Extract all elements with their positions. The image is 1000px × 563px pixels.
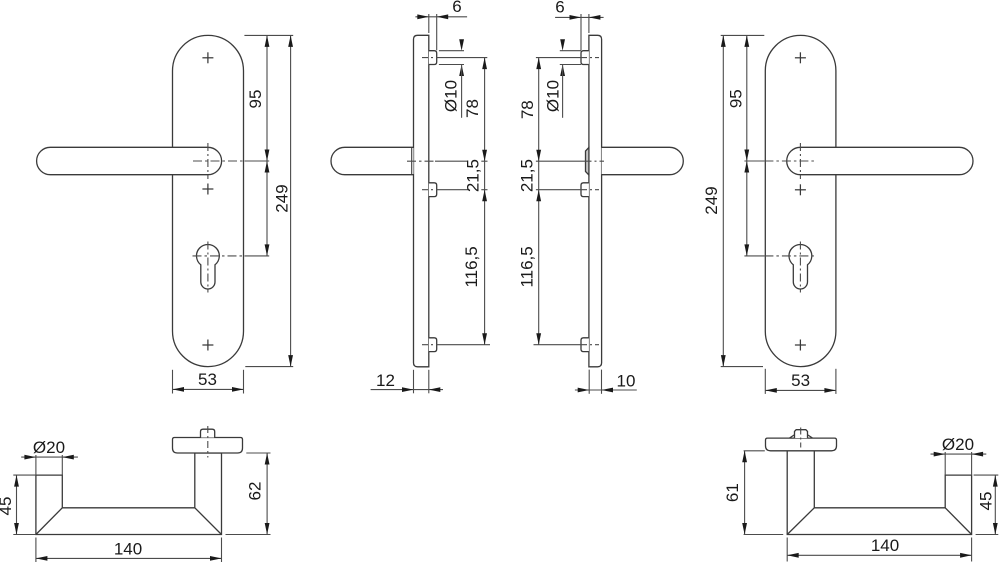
dimension line handle centre to cylinder centre: [266, 161, 268, 256]
svg-text:12: 12: [376, 371, 395, 390]
cylinder horizontal centreline (right): [764, 255, 816, 257]
extension line from cylinder centre to dimension line: [245, 255, 270, 257]
svg-text:140: 140: [114, 539, 142, 558]
lever grip in profile (pointing left): [331, 147, 413, 174]
svg-text:249: 249: [273, 184, 292, 212]
extension hub centre to dimension line (right): [744, 160, 764, 162]
extension handle centre (right view): [536, 160, 586, 162]
dimension line diam20: [21, 456, 78, 458]
chain dimension line 78/21,5/116,5 (right view): [538, 58, 540, 345]
svg-text:61: 61: [723, 483, 742, 502]
spindle (left handle): [201, 429, 215, 437]
screw mark below hub (+): [202, 184, 213, 195]
extension lines for 53: [172, 370, 174, 394]
left chamfer diagonal: [36, 508, 62, 535]
hub vertical centreline (right): [799, 143, 801, 179]
extension top boss centre to chain dimension line: [441, 57, 488, 59]
extension lines for diam 10 (boss): [439, 50, 464, 52]
lever handle grip (front view, pointing right): [787, 147, 973, 174]
handle outline (top view, right handle): [787, 451, 971, 535]
rosette (top view, left handle): [173, 438, 243, 454]
bottom screw mark right view (+): [795, 340, 806, 351]
extension middle boss centre: [441, 189, 469, 191]
extension lines for 140 (left handle): [35, 538, 37, 563]
svg-text:10: 10: [617, 372, 636, 391]
long plate (front view, right fitting) 53x249: [765, 35, 836, 366]
svg-text:45: 45: [977, 492, 996, 511]
dimension line 95 (plate top to handle centre): [266, 35, 268, 161]
cylinder horizontal centreline: [193, 255, 245, 257]
svg-text:53: 53: [198, 370, 217, 389]
extension line 62 top: [246, 452, 270, 454]
extension bottom boss centre: [441, 344, 491, 346]
extension lines for 10 (plate thickness right view): [588, 370, 590, 394]
dimension line diam10 (right view): [560, 39, 565, 51]
left chamfer diagonal (right handle): [787, 508, 814, 535]
svg-text:140: 140: [871, 536, 899, 555]
hub horizontal centreline (right): [764, 160, 816, 162]
top fixing boss (left side): [581, 51, 589, 65]
grip centreline dash-dot: [407, 160, 435, 162]
dimension line 10: [575, 389, 637, 391]
extension cylinder centre to dimension line (right): [744, 255, 764, 257]
dimension line handle centre to cylinder centre (right view): [746, 161, 748, 256]
dimension line 62: [266, 453, 268, 535]
middle boss centreline dash: [581, 189, 599, 191]
svg-text:62: 62: [246, 482, 265, 501]
dimension line 249 (overall plate height): [290, 35, 292, 366]
top extension line (right view): [721, 34, 765, 36]
bottom fixing boss: [429, 338, 437, 352]
screw mark below hub right view (+): [795, 184, 806, 195]
extension lines for 45 (left): [13, 474, 36, 476]
middle fixing boss: [429, 183, 437, 197]
svg-text:Ø20: Ø20: [942, 435, 974, 454]
dimension line 53 (right view): [765, 389, 836, 391]
extension line 62 bottom: [226, 534, 271, 536]
dimension line 53 (plate width): [173, 388, 244, 390]
extension chain line to top boss centre: [536, 57, 581, 59]
dimension line 45 (right handle): [994, 475, 996, 534]
cylinder vertical centreline: [207, 242, 209, 293]
middle fixing boss (left side): [581, 183, 589, 197]
bottom boss centreline: [422, 344, 441, 346]
euro profile cylinder hole (right view): [789, 244, 812, 289]
lever grip in profile (pointing right): [602, 147, 684, 174]
spindle base wings: [790, 435, 795, 438]
dimension line 249 (right view): [722, 35, 724, 366]
hub vertical centreline: [207, 143, 209, 179]
middle boss centreline: [422, 189, 441, 191]
extension line from hub centre to dimension line: [245, 160, 270, 162]
dimension line diam20 (right handle): [931, 453, 987, 455]
plate profile bar (thickness 12): [414, 35, 429, 367]
svg-text:116,5: 116,5: [462, 246, 481, 287]
handle centreline dash through plate: [586, 160, 605, 162]
extension bottom boss centre (right view): [534, 344, 582, 346]
extension lines for diam 10 (right view): [560, 50, 581, 52]
spindle centreline: [207, 426, 209, 458]
right chamfer diagonal: [195, 508, 222, 535]
cylinder vertical centreline (right): [799, 242, 801, 293]
svg-text:78: 78: [518, 100, 537, 119]
top screw mark right view (+): [795, 52, 806, 63]
svg-text:116,5: 116,5: [518, 246, 537, 287]
svg-text:21,5: 21,5: [464, 159, 483, 192]
extension lines for 12 (plate thickness): [413, 370, 415, 394]
svg-text:6: 6: [452, 0, 461, 16]
svg-text:6: 6: [555, 0, 564, 17]
top boss centreline: [422, 57, 441, 59]
bottom boss centreline dash: [581, 344, 599, 346]
svg-text:78: 78: [463, 99, 482, 118]
extension line 61 top: [744, 450, 765, 452]
spindle centreline (right handle): [800, 428, 802, 448]
bottom screw mark (+): [202, 340, 213, 351]
dimension line 140 (right handle): [787, 554, 971, 556]
extension middle boss centre (right view): [536, 189, 581, 191]
extension lines for diam20: [35, 455, 37, 475]
svg-text:Ø20: Ø20: [33, 438, 65, 457]
dimension line 45 (left): [16, 475, 18, 534]
extension lines for 45 (right handle): [974, 474, 999, 476]
right chamfer diagonal (right handle): [945, 508, 971, 535]
joint line between grip and plate: [411, 147, 413, 174]
long plate (front view, left fitting) 53x249: [173, 35, 244, 366]
extension lines for 140 (right handle): [786, 538, 788, 562]
spindle with chamfers (right handle): [795, 430, 808, 438]
extension lines for 6 (boss projection, right view): [588, 14, 590, 33]
extension handle centre: [435, 160, 468, 162]
dimension line 140 (left handle): [36, 557, 222, 559]
extension lines for 53 (right view): [764, 369, 766, 394]
euro profile cylinder hole: [197, 244, 220, 289]
svg-text:21,5: 21,5: [518, 159, 537, 192]
dimension line 6: [415, 16, 467, 18]
top screw mark (+): [202, 52, 213, 63]
extension lines for 6 (boss projection): [428, 14, 430, 33]
top fixing boss: [429, 51, 437, 65]
bottom extension line (right view): [721, 366, 763, 368]
svg-text:249: 249: [702, 186, 721, 214]
dimension line 95 (right view): [746, 35, 748, 161]
bottom extension line: [245, 366, 293, 368]
svg-text:Ø10: Ø10: [544, 80, 563, 112]
dimension line 6 (right view): [555, 16, 604, 18]
svg-text:95: 95: [727, 89, 746, 108]
handle hub bearing seen edge-on (grey): [586, 148, 589, 176]
bottom fixing boss (left side): [581, 338, 589, 352]
svg-text:53: 53: [791, 371, 810, 390]
extension line 61 bottom: [744, 534, 784, 536]
extension lines for diam20 (right handle): [944, 452, 946, 475]
lever handle grip (front view, pointing left): [37, 147, 222, 174]
dimension line diam10 with outside arrows: [459, 39, 464, 51]
svg-text:Ø10: Ø10: [441, 80, 460, 112]
handle outline (top view, left handle): [36, 453, 222, 535]
dimension line 12: [371, 389, 443, 391]
top extension line: [244, 34, 293, 36]
chain dimension line 78 / 21,5 / 116,5: [484, 58, 486, 345]
top boss centreline dash: [581, 57, 599, 59]
svg-text:45: 45: [0, 497, 15, 516]
rosette (top view, right handle): [766, 438, 837, 451]
dimension line 61: [744, 451, 746, 535]
plate profile bar (thickness 10): [589, 35, 602, 367]
svg-text:95: 95: [246, 90, 265, 109]
hub horizontal centreline: [193, 160, 245, 162]
